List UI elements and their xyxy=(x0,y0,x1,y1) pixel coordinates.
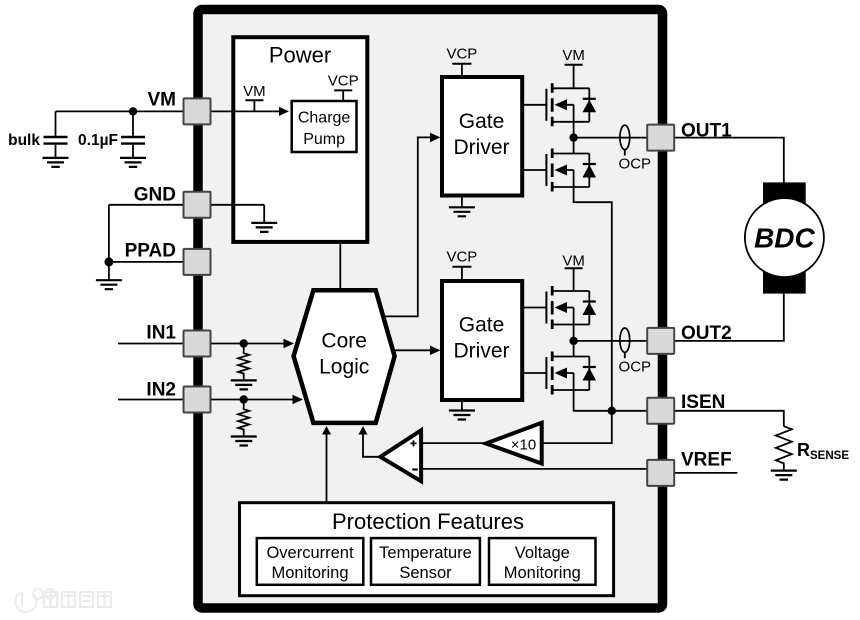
VM terminal half-bridge 1 xyxy=(573,66,575,89)
gate driver U5 xyxy=(442,281,522,400)
resistor RSENSE xyxy=(776,426,792,470)
svg-text:Driver: Driver xyxy=(454,340,510,363)
svg-text:0.1µF: 0.1µF xyxy=(78,132,118,149)
VM supply terminal inside Power xyxy=(253,101,255,111)
comparator minus input mark xyxy=(412,468,417,470)
transistor Q4 low-side bridge 2 xyxy=(520,352,596,395)
wire comparator output to Core Logic xyxy=(363,434,380,457)
motor BDC xyxy=(763,182,806,204)
wire VM pin to charge pump xyxy=(211,110,283,112)
wire PPAD external xyxy=(109,261,184,263)
svg-text:VM: VM xyxy=(148,90,177,111)
svg-text:bulk: bulk xyxy=(8,132,40,149)
ground R2 xyxy=(231,437,257,446)
svg-text:BDC: BDC xyxy=(754,223,815,254)
svg-text:VM: VM xyxy=(243,83,266,100)
ground RSENSE xyxy=(771,471,797,480)
Core Logic U3 xyxy=(294,290,395,423)
svg-text:IN2: IN2 xyxy=(146,380,176,401)
resistor R2 pulldown IN2 xyxy=(238,400,249,436)
svg-text:Core: Core xyxy=(321,330,367,353)
pin IN2 xyxy=(184,387,211,413)
wire OUT2 node to pin xyxy=(574,340,648,342)
overcurrent monitoring block xyxy=(257,538,364,585)
gate driver U4 xyxy=(442,77,522,196)
pin IN1 xyxy=(184,331,211,357)
svg-text:OUT2: OUT2 xyxy=(681,323,732,344)
wire ISEN to Rsense xyxy=(674,411,784,426)
wire Q4 source to ISEN xyxy=(574,390,648,411)
svg-text:Monitoring: Monitoring xyxy=(271,564,348,582)
svg-text:Driver: Driver xyxy=(454,136,510,159)
svg-text:Gate: Gate xyxy=(459,110,505,133)
wire IN2 pin to Core Logic xyxy=(211,399,295,401)
svg-text:Power: Power xyxy=(269,43,331,68)
wire Q1 source to Q2 drain xyxy=(573,122,575,154)
node OUT1 junction xyxy=(569,133,577,141)
svg-text:Voltage: Voltage xyxy=(515,544,570,562)
charge pump U2 xyxy=(292,101,357,152)
svg-text:VM: VM xyxy=(562,47,585,64)
wire GND external xyxy=(109,205,184,262)
svg-text:Gate: Gate xyxy=(459,314,505,337)
wire IN1 external xyxy=(118,343,184,345)
protection features block xyxy=(240,503,614,596)
pin OUT2 xyxy=(647,328,674,354)
ground C1 xyxy=(43,158,69,167)
svg-text:Logic: Logic xyxy=(319,356,369,379)
wire VM external xyxy=(56,110,184,112)
ground below gate driver U5 xyxy=(461,400,463,410)
pin GND xyxy=(184,192,211,218)
temperature sensor block xyxy=(371,538,480,585)
node IN1 junction xyxy=(240,339,248,347)
svg-text:VCP: VCP xyxy=(446,46,477,63)
svg-text:VCP: VCP xyxy=(446,249,477,266)
Power block xyxy=(233,37,367,242)
wire IN1 pin to Core Logic xyxy=(211,343,286,345)
transistor Q2 low-side bridge 1 xyxy=(520,149,596,192)
transistor Q3 high-side bridge 2 xyxy=(520,286,596,329)
svg-text:Protection Features: Protection Features xyxy=(332,509,524,534)
wire protection to Core Logic xyxy=(326,434,328,503)
svg-text:OUT1: OUT1 xyxy=(681,121,732,142)
svg-text:GND: GND xyxy=(134,185,176,206)
voltage monitoring block xyxy=(489,538,596,585)
wire IN2 external xyxy=(118,399,184,401)
comparator U6 xyxy=(380,430,421,481)
wire OUT1 to motor xyxy=(674,138,784,185)
VM terminal half-bridge 2 xyxy=(573,269,575,292)
capacitor C2 0.1uF xyxy=(132,111,134,135)
wire VREF pin to comparator minus xyxy=(421,468,647,470)
node IN2 junction xyxy=(240,395,248,403)
wire VREF external stub xyxy=(674,472,737,474)
IC boundary xyxy=(198,10,663,609)
svg-text:Pump: Pump xyxy=(303,131,345,148)
svg-text:Monitoring: Monitoring xyxy=(504,564,581,582)
wire x10 output to comparator plus xyxy=(421,442,486,444)
node OUT2 junction xyxy=(569,337,577,345)
pin ISEN xyxy=(647,398,674,424)
wire Power to Core Logic xyxy=(339,242,341,290)
wire Core Logic to Gate Driver 2 xyxy=(393,349,431,351)
ground below gate driver U4 xyxy=(461,196,463,207)
node ISEN junction xyxy=(608,407,616,415)
ground PPAD xyxy=(108,262,110,280)
svg-text:Charge: Charge xyxy=(298,110,351,127)
VCP supply terminal on charge pump xyxy=(342,91,344,101)
svg-text:VREF: VREF xyxy=(681,450,732,471)
OCP sensor bridge 2 xyxy=(624,352,626,358)
VCP terminal on gate driver U4 xyxy=(461,65,463,78)
svg-text:Temperature: Temperature xyxy=(379,544,472,562)
wire motor to OUT2 xyxy=(674,294,784,341)
svg-text:ISEN: ISEN xyxy=(681,392,725,413)
wire Q2 source to sense line xyxy=(574,187,612,411)
comparator plus input mark xyxy=(411,440,417,446)
ground inside Power block xyxy=(211,205,265,222)
svg-text:VCP: VCP xyxy=(328,73,359,90)
pin VM xyxy=(184,98,211,124)
svg-text:OCP: OCP xyxy=(619,156,652,173)
OCP sensor bridge 1 xyxy=(624,150,626,156)
watermark logo xyxy=(15,589,111,612)
svg-text:VM: VM xyxy=(562,253,585,270)
node PPAD junction xyxy=(104,257,113,266)
wire OUT1 node to pin xyxy=(574,137,648,139)
pin VREF xyxy=(647,460,674,486)
wire Q3 source to Q4 drain xyxy=(573,325,575,357)
amplifier x10 U7 xyxy=(486,423,542,464)
svg-text:Overcurrent: Overcurrent xyxy=(266,544,354,562)
VCP terminal on gate driver U5 xyxy=(461,268,463,282)
resistor R1 pulldown IN1 xyxy=(238,344,249,380)
capacitor C1 bulk xyxy=(55,111,57,135)
ground R1 xyxy=(231,380,257,389)
wire ISEN node to x10 input xyxy=(542,411,612,443)
pin OUT1 xyxy=(647,125,674,151)
node VM junction xyxy=(129,107,137,115)
transistor Q1 high-side bridge 1 xyxy=(520,83,596,126)
pin PPAD xyxy=(184,249,211,275)
svg-text:PPAD: PPAD xyxy=(125,241,176,262)
wire Core Logic to Gate Driver 1 xyxy=(383,137,430,316)
svg-text:×10: ×10 xyxy=(511,437,536,454)
svg-text:OCP: OCP xyxy=(619,359,652,376)
svg-text:Sensor: Sensor xyxy=(399,564,452,582)
svg-text:IN1: IN1 xyxy=(146,323,176,344)
ground C2 xyxy=(120,158,146,167)
